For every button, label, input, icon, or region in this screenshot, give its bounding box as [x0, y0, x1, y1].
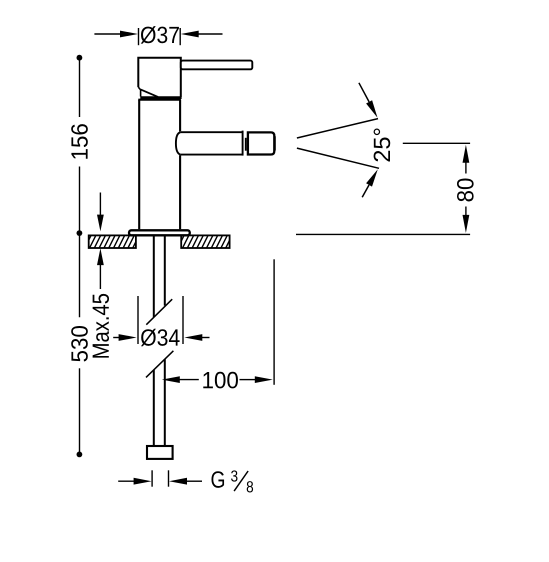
- dimension 80: [296, 143, 470, 234]
- countertop hatched right: [177, 234, 238, 250]
- lever handle: [181, 61, 253, 70]
- arrowhead dim 80 up: [463, 145, 470, 163]
- dot top end of 156/530 line: [77, 55, 83, 61]
- left master dimension line with dots: [79, 60, 81, 452]
- arrowhead dim &#216;34 left: [119, 334, 137, 341]
- arrowhead dim 100 left: [162, 376, 180, 383]
- countertop hatched left: [84, 234, 145, 250]
- arrowhead dim 100 right: [255, 376, 273, 383]
- arrowhead Max.45 up: [97, 248, 104, 265]
- label 530: [71, 326, 88, 361]
- fraction slash: [234, 471, 248, 491]
- hose end fitting: [147, 446, 173, 459]
- 25 degree spray angle lines: [297, 83, 379, 197]
- supply pipe lower segment: [154, 359, 165, 445]
- arrowhead 25deg upper: [366, 100, 377, 118]
- dot bottom end of 530 line: [77, 452, 83, 458]
- label 156: [71, 124, 88, 159]
- supply pipe upper segment: [154, 236, 165, 317]
- arrowhead dim &#216;37 left: [120, 31, 138, 38]
- spout: [176, 131, 246, 156]
- handle tilt diagonal: [141, 90, 158, 97]
- arrowhead dim &#216;34 right: [184, 334, 202, 341]
- label 80: [457, 178, 474, 201]
- joint line between spout and aerator: [245, 138, 247, 151]
- pipe break slash 1: [146, 299, 172, 325]
- arrowhead dim &#216;37 right: [181, 31, 199, 38]
- label Max.45: [93, 294, 109, 358]
- label &#216;34: [141, 329, 180, 346]
- label 25deg: [374, 129, 391, 162]
- faucet body column: [138, 100, 181, 230]
- dot countertop level: [77, 230, 83, 236]
- aerator tip: [248, 132, 274, 154]
- Max.45 dimension arrows: [99, 193, 101, 216]
- base flange: [129, 230, 190, 235]
- arrowhead Max.45 down: [97, 215, 104, 232]
- label 100: [203, 372, 238, 389]
- arrowhead dim G3/8 right: [169, 478, 187, 485]
- thick cap bottom bar: [140, 96, 181, 99]
- label &#216;37: [141, 26, 179, 43]
- label fraction numerator 3: [231, 470, 237, 481]
- faucet cap/cartridge housing: [138, 58, 181, 98]
- dimension Ø37 (top): [94, 28, 222, 45]
- aerator rounded end edge: [274, 136, 276, 150]
- dimension Ø34: [113, 296, 209, 344]
- arrowhead dim G3/8 left: [134, 478, 152, 485]
- arrowhead 25deg lower: [366, 169, 378, 186]
- label fraction denominator 8: [247, 481, 253, 492]
- dimension 100: [179, 259, 274, 385]
- dimension G 3/8: [118, 470, 202, 486]
- arrowhead dim 80 down: [463, 215, 470, 233]
- label G: [211, 471, 224, 488]
- pipe break slash 2: [146, 351, 173, 378]
- spout left rounded end arc: [176, 132, 180, 154]
